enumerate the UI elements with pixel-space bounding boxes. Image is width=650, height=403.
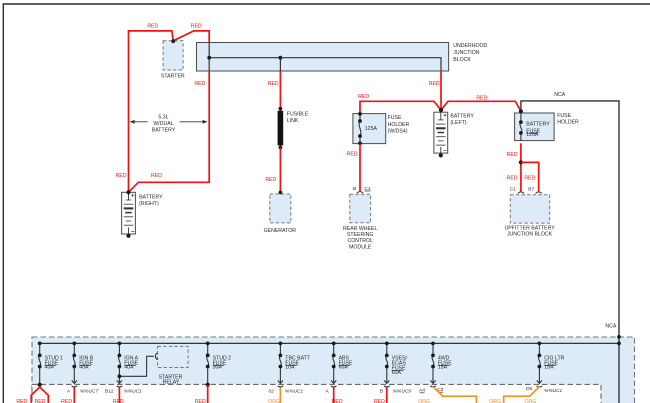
junction dot battery fuse entry bbox=[519, 109, 523, 113]
svg-text:%%UC1: %%UC1 bbox=[544, 388, 562, 394]
svg-text:BLOCK: BLOCK bbox=[453, 57, 471, 63]
svg-text:60A: 60A bbox=[392, 370, 402, 376]
wire RED junction block to battery right bbox=[129, 71, 210, 192]
junction dot fusible link bottom bbox=[279, 146, 283, 150]
junction dot bus entry bbox=[207, 56, 211, 60]
connector C1 label bbox=[364, 186, 371, 192]
bus inside junction block bbox=[209, 43, 441, 71]
svg-text:RED: RED bbox=[113, 399, 124, 403]
battery fuse holder box bbox=[515, 113, 555, 141]
svg-text:RED: RED bbox=[195, 399, 206, 403]
svg-text:(RIGHT): (RIGHT) bbox=[139, 201, 159, 207]
svg-text:UPFITTER BATTERY: UPFITTER BATTERY bbox=[504, 226, 555, 232]
svg-text:RED: RED bbox=[476, 95, 487, 101]
connector chevron CIG LTR bbox=[537, 380, 543, 387]
svg-text:BATTERY: BATTERY bbox=[139, 195, 163, 201]
svg-text:LINK: LINK bbox=[287, 118, 299, 124]
svg-text:RED: RED bbox=[116, 173, 127, 179]
svg-text:60A: 60A bbox=[339, 365, 349, 371]
connector cup upfitter B7 bbox=[536, 192, 542, 194]
wire ORG 4WD output bbox=[433, 387, 476, 403]
fuse CIG LTR label bbox=[544, 355, 564, 370]
starter relay label bbox=[159, 375, 183, 386]
wire RED w/ds4 fuse to rear wheel module bbox=[359, 144, 361, 191]
junction dot IGN A relay branch bbox=[118, 374, 122, 378]
svg-text:STEERING: STEERING bbox=[347, 232, 374, 238]
starter relay box bbox=[158, 346, 189, 367]
wire ORG TBC BATT output bbox=[279, 388, 281, 403]
off-page connector RED stud 1 bbox=[31, 387, 48, 403]
svg-text:FUSIBLE: FUSIBLE bbox=[287, 112, 309, 118]
svg-text:BATTERY: BATTERY bbox=[152, 128, 176, 134]
connector C3 label bbox=[437, 387, 443, 393]
svg-text:B: B bbox=[380, 388, 383, 394]
pin A4 label 4WD bbox=[419, 388, 425, 394]
svg-text:125A: 125A bbox=[526, 132, 539, 138]
fuse VSES/ 60A bbox=[385, 342, 389, 384]
svg-text:BATTERY: BATTERY bbox=[526, 121, 550, 127]
fuse IGN A 40A bbox=[118, 342, 122, 384]
fuse holder w/ds4 box bbox=[353, 114, 386, 144]
svg-text:GENERATOR: GENERATOR bbox=[264, 228, 297, 234]
wire RED junction block to battery left bbox=[440, 71, 442, 110]
connector chevron IGN A bbox=[117, 380, 123, 387]
svg-text:15A: 15A bbox=[544, 365, 554, 371]
wire RED battery right to starter bbox=[129, 31, 174, 192]
generator box bbox=[270, 194, 291, 223]
svg-text:RED: RED bbox=[332, 399, 343, 403]
dot fuse w/ds4 top bbox=[358, 119, 362, 123]
svg-text:HOLDER: HOLDER bbox=[388, 122, 410, 128]
svg-text:UNDERHOOD: UNDERHOOD bbox=[453, 43, 487, 49]
wire ORG CIG LTR output bbox=[504, 387, 540, 403]
underhood junction block box bbox=[197, 43, 449, 72]
fuse ABS 60A bbox=[332, 342, 336, 384]
fuse STUD 2 30A bbox=[206, 342, 210, 385]
svg-text:FUSE: FUSE bbox=[388, 115, 402, 121]
wire RED ABS output bbox=[333, 388, 335, 403]
svg-text:40A: 40A bbox=[79, 365, 89, 371]
svg-text:C1: C1 bbox=[510, 187, 516, 193]
junction dot battery left positive bbox=[439, 108, 443, 112]
junction dot battery fuse branch bbox=[519, 160, 523, 164]
fusible link bbox=[278, 109, 284, 148]
junction dot battery left negative bbox=[439, 153, 443, 157]
fuse holder label right bbox=[557, 113, 579, 125]
wire IGN A fuse to starter relay bbox=[119, 356, 153, 376]
battery right label bbox=[139, 195, 163, 207]
fuse STUD 2 label bbox=[213, 355, 232, 370]
svg-text:HOLDER: HOLDER bbox=[557, 119, 579, 125]
junction dot STUD 2 splice bbox=[206, 383, 210, 387]
junction dot battery right positive bbox=[126, 190, 130, 194]
upfitter battery junction block label bbox=[504, 226, 555, 238]
connector chevron TBC BATT bbox=[278, 380, 284, 387]
junction dot starter bbox=[171, 39, 175, 43]
connector cup upfitter C1 bbox=[518, 192, 524, 194]
battery fuse label bbox=[526, 121, 550, 138]
fuse IGN B 40A bbox=[72, 342, 76, 384]
svg-text:RED: RED bbox=[61, 399, 72, 403]
junction dot STUD 1 splice bbox=[38, 383, 42, 387]
fuse TBC BATT 10A bbox=[279, 342, 283, 384]
fuse TBC BATT label bbox=[285, 355, 311, 370]
svg-text:RED: RED bbox=[507, 152, 518, 158]
underhood fuse block band box bbox=[32, 337, 635, 403]
wire RED STUD 2 output bbox=[207, 385, 209, 403]
svg-text:10A: 10A bbox=[285, 365, 295, 371]
svg-text:15A: 15A bbox=[438, 365, 448, 371]
rear wheel steering control module label bbox=[343, 226, 377, 250]
wire RED IGN A output bbox=[118, 388, 120, 403]
wire RED battery left to battery fuse bbox=[441, 101, 521, 111]
dot battery fuse top bbox=[519, 120, 523, 124]
svg-text:ORG: ORG bbox=[524, 399, 536, 403]
svg-text:RED: RED bbox=[429, 81, 440, 87]
bus bar in fuse block band bbox=[40, 342, 619, 344]
fuse ABS label bbox=[339, 355, 353, 370]
wire RED IGN B output bbox=[73, 388, 75, 403]
junction dot fusible link top bbox=[279, 107, 283, 111]
battery left label bbox=[450, 113, 474, 125]
svg-text:NCA: NCA bbox=[554, 92, 565, 98]
svg-text:CONTROL: CONTROL bbox=[348, 238, 373, 244]
svg-text:MODULE: MODULE bbox=[349, 244, 372, 250]
connector chevron 4WD bbox=[430, 380, 436, 387]
connector chevron IGN B bbox=[72, 380, 78, 387]
svg-text:RED: RED bbox=[147, 24, 158, 30]
battery right symbol bbox=[122, 192, 136, 234]
battery fuse symbol bbox=[520, 113, 522, 141]
svg-text:B12: B12 bbox=[105, 388, 114, 394]
underhood junction block label bbox=[453, 43, 487, 63]
annotation 5.3L w/dual battery bbox=[130, 115, 208, 134]
svg-text:RED: RED bbox=[347, 152, 358, 158]
svg-text:D5: D5 bbox=[526, 386, 532, 392]
rear wheel steering control module box bbox=[350, 194, 371, 222]
fuse 4WD 15A bbox=[431, 342, 435, 384]
fuse 4WD label bbox=[438, 355, 452, 370]
dot wire exit w/ds4 bbox=[358, 141, 362, 145]
svg-text:ORG: ORG bbox=[489, 399, 501, 403]
svg-text:5.3L: 5.3L bbox=[158, 115, 168, 121]
junction dot bus fusible link bbox=[279, 56, 283, 60]
wire RED battery fuse down bbox=[520, 143, 522, 191]
svg-text:(W/DS4): (W/DS4) bbox=[388, 129, 408, 135]
svg-text:30A: 30A bbox=[213, 365, 223, 371]
svg-text:%%UC7: %%UC7 bbox=[80, 389, 98, 395]
inner connector box bbox=[32, 384, 601, 403]
connector chevron ABS bbox=[331, 380, 337, 387]
svg-text:40A: 40A bbox=[45, 365, 55, 371]
svg-text:ORG: ORG bbox=[418, 399, 430, 403]
svg-text:RED: RED bbox=[194, 81, 205, 87]
svg-text:125A: 125A bbox=[365, 126, 378, 132]
svg-text:RED: RED bbox=[268, 81, 279, 87]
wire RED junction block to fusible link bbox=[279, 71, 281, 109]
junction dot NCA bus bbox=[617, 342, 621, 346]
svg-text:RED: RED bbox=[151, 173, 162, 179]
connector cup starter relay bbox=[155, 353, 157, 360]
svg-text:RED: RED bbox=[265, 177, 276, 183]
wire RED branch to B7 bbox=[521, 162, 539, 191]
fuse 125A w/ds4 bbox=[359, 114, 361, 144]
upfitter battery junction block box bbox=[510, 195, 549, 223]
wire RED battery left to fuse holder w/ds4 bbox=[360, 101, 441, 113]
fuse holder w/ds4 label bbox=[388, 115, 410, 134]
battery left symbol bbox=[434, 112, 448, 153]
wire RED fusible link to generator bbox=[279, 148, 281, 193]
svg-text:JUNCTION BLOCK: JUNCTION BLOCK bbox=[507, 232, 553, 238]
junction dot battery right negative bbox=[126, 234, 130, 238]
svg-text:RELAY: RELAY bbox=[163, 379, 180, 385]
junction dot NCA band entry bbox=[617, 335, 621, 339]
svg-text:RED: RED bbox=[35, 399, 46, 403]
fusible link label bbox=[287, 112, 309, 124]
svg-text:RED: RED bbox=[524, 176, 535, 182]
svg-text:%%UC1: %%UC1 bbox=[124, 389, 142, 395]
svg-text:RED: RED bbox=[374, 399, 385, 403]
svg-text:FUSE: FUSE bbox=[557, 113, 571, 119]
svg-text:RED: RED bbox=[191, 24, 202, 30]
svg-text:02: 02 bbox=[269, 388, 275, 394]
svg-text:%%UC9: %%UC9 bbox=[393, 389, 411, 395]
svg-text:RED: RED bbox=[358, 94, 369, 100]
svg-text:RED: RED bbox=[16, 399, 27, 403]
svg-text:(LEFT): (LEFT) bbox=[450, 120, 466, 126]
svg-text:%%UC1: %%UC1 bbox=[285, 389, 303, 395]
dot battery fuse bottom bbox=[519, 131, 523, 135]
fuse CIG LTR 15A bbox=[538, 342, 542, 384]
svg-text:40A: 40A bbox=[124, 365, 134, 371]
svg-text:B: B bbox=[353, 186, 356, 192]
wire RED VSES output bbox=[386, 388, 388, 403]
svg-text:ORG: ORG bbox=[268, 399, 280, 403]
dot fuse w/ds4 bottom bbox=[358, 134, 362, 138]
svg-text:NCA: NCA bbox=[605, 323, 616, 329]
dot wire entry w/ds4 bbox=[358, 112, 362, 116]
fuse IGN B label bbox=[79, 355, 94, 370]
fuse STUD 1 label bbox=[45, 355, 64, 370]
fuse VSES/ label bbox=[392, 355, 408, 376]
connector chevron VSES/ bbox=[384, 380, 390, 387]
svg-text:RED: RED bbox=[507, 176, 518, 182]
svg-text:BATTERY: BATTERY bbox=[450, 113, 474, 119]
fuse STUD 1 40A bbox=[38, 342, 42, 385]
wire NCA bbox=[521, 101, 619, 403]
svg-text:W/DUAL: W/DUAL bbox=[153, 121, 173, 127]
svg-text:B7: B7 bbox=[528, 187, 534, 193]
svg-text:STARTER: STARTER bbox=[161, 73, 185, 79]
junction dot generator bbox=[279, 191, 283, 195]
starter box bbox=[163, 41, 183, 70]
connector cup rear wheel module bbox=[357, 192, 363, 194]
wire RED starter to junction block bbox=[173, 31, 209, 43]
fuse IGN A label bbox=[124, 355, 138, 370]
svg-text:JUNCTION: JUNCTION bbox=[453, 50, 479, 56]
